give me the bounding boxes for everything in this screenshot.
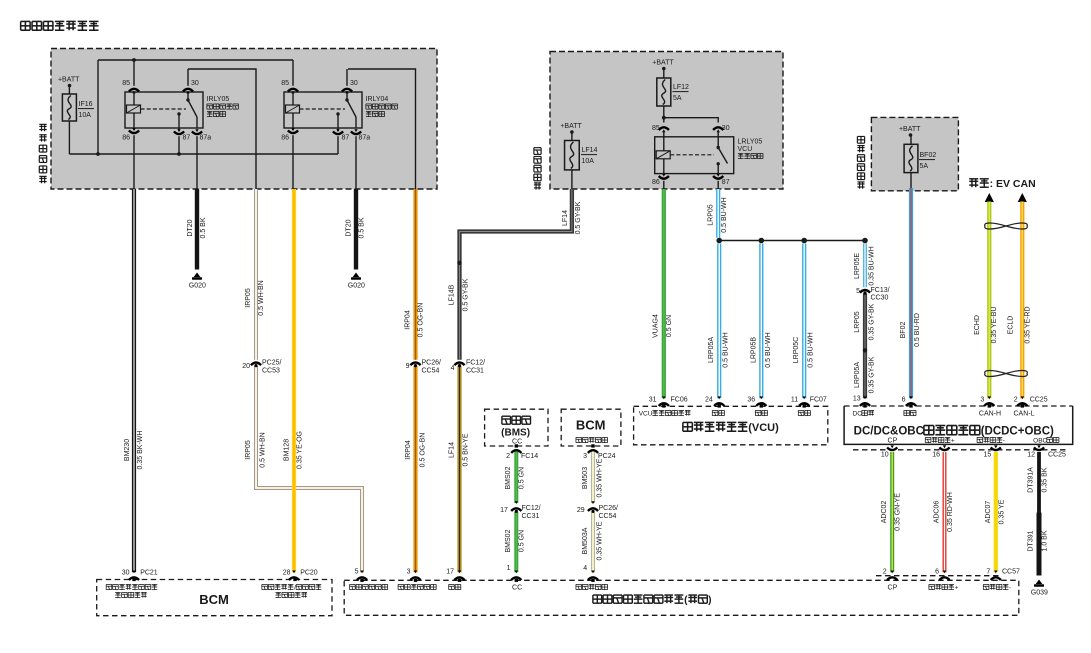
svg-text:BM503A: BM503A: [582, 527, 589, 554]
svg-text:0.5 GY-BK: 0.5 GY-BK: [575, 201, 582, 234]
svg-text:CC25: CC25: [1030, 397, 1048, 404]
svg-text:BCM: BCM: [199, 592, 229, 607]
svg-text:0.5 BN-YE: 0.5 BN-YE: [463, 433, 470, 466]
svg-text:13: 13: [853, 396, 861, 403]
svg-text:VCU: VCU: [639, 411, 653, 418]
svg-text:87: 87: [342, 135, 350, 142]
svg-text:ECLD: ECLD: [1008, 316, 1015, 335]
svg-text:+: +: [955, 585, 959, 592]
svg-text:16: 16: [932, 452, 940, 459]
svg-text:IRP04: IRP04: [405, 310, 412, 330]
svg-text:DT20: DT20: [346, 219, 353, 236]
svg-text:10: 10: [881, 452, 889, 459]
svg-text:LRP05A: LRP05A: [854, 362, 861, 388]
svg-text:+BATT: +BATT: [899, 126, 921, 133]
svg-text:DC: DC: [853, 411, 863, 418]
svg-text:85: 85: [652, 125, 660, 132]
svg-text:0.5 BU-WH: 0.5 BU-WH: [808, 332, 815, 367]
svg-text:CAN-H: CAN-H: [979, 411, 1001, 418]
svg-text:PC20: PC20: [300, 570, 318, 577]
svg-text:BMS02: BMS02: [505, 466, 512, 489]
svg-text:(: (: [684, 595, 688, 606]
svg-text:VUAG4: VUAG4: [653, 314, 660, 338]
svg-text:FC12/: FC12/: [466, 360, 485, 367]
svg-text:31: 31: [649, 397, 657, 404]
svg-text:0.35 BK-WH: 0.35 BK-WH: [137, 431, 144, 470]
svg-text:29: 29: [577, 507, 585, 514]
svg-text:24: 24: [705, 397, 713, 404]
svg-text:PC21: PC21: [140, 570, 158, 577]
svg-text:+BATT: +BATT: [652, 60, 674, 67]
svg-text:BF02: BF02: [920, 152, 937, 159]
svg-text:ADC07: ADC07: [985, 501, 992, 524]
svg-text:(BMS): (BMS): [501, 428, 530, 439]
svg-text:0.5 GN: 0.5 GN: [519, 530, 526, 552]
svg-text:0.35 WH-YE: 0.35 WH-YE: [597, 458, 604, 497]
svg-text:/: /: [294, 585, 296, 592]
svg-text:5A: 5A: [920, 163, 929, 170]
svg-text:20: 20: [242, 363, 250, 370]
svg-text:IRP05: IRP05: [245, 288, 252, 308]
svg-text:-: -: [1009, 585, 1011, 592]
svg-text:1.0 BK: 1.0 BK: [1042, 530, 1049, 551]
svg-text:ADC02: ADC02: [881, 501, 888, 524]
svg-text:PC24: PC24: [598, 453, 616, 460]
svg-text:36: 36: [747, 397, 755, 404]
svg-text:CC54: CC54: [599, 513, 617, 520]
svg-text:28: 28: [283, 570, 291, 577]
svg-text:CC53: CC53: [262, 368, 280, 375]
svg-text:5A: 5A: [673, 95, 682, 102]
svg-text:LRP05: LRP05: [854, 311, 861, 333]
svg-text:6: 6: [902, 397, 906, 404]
svg-text:17: 17: [446, 569, 454, 576]
svg-text:LF14: LF14: [449, 442, 456, 458]
svg-text:0.5 GN: 0.5 GN: [519, 467, 526, 489]
svg-text:1: 1: [507, 565, 511, 572]
svg-text:G020: G020: [189, 283, 206, 290]
svg-text:FC07: FC07: [810, 397, 827, 404]
svg-text:0.35 YE: 0.35 YE: [999, 499, 1006, 524]
svg-text:30: 30: [122, 570, 130, 577]
svg-text:2: 2: [883, 569, 887, 576]
svg-text:87: 87: [722, 179, 730, 186]
svg-text:-: -: [1003, 438, 1005, 445]
svg-text:6: 6: [935, 569, 939, 576]
svg-text:(VCU): (VCU): [748, 422, 779, 434]
svg-text:86: 86: [652, 179, 660, 186]
svg-text:0.35 YE-OG: 0.35 YE-OG: [297, 431, 304, 469]
svg-text:17: 17: [500, 507, 508, 514]
svg-text:0.5 WH-BN: 0.5 WH-BN: [258, 280, 265, 315]
svg-text:LRP05C: LRP05C: [793, 337, 800, 363]
svg-text:0.5 GY-BK: 0.5 GY-BK: [463, 278, 470, 311]
svg-text:3: 3: [407, 569, 411, 576]
svg-text:7: 7: [986, 569, 990, 576]
svg-text:0.5 BU-WH: 0.5 BU-WH: [721, 197, 728, 232]
svg-text:LF14B: LF14B: [449, 284, 456, 305]
svg-text:0.5 OG-BN: 0.5 OG-BN: [418, 303, 425, 338]
svg-text:0.5 BU-WH: 0.5 BU-WH: [765, 332, 772, 367]
svg-text:+BATT: +BATT: [560, 123, 582, 130]
svg-text:0.5 GN: 0.5 GN: [666, 315, 673, 337]
svg-text:CC: CC: [512, 585, 522, 592]
svg-text:LRP05B: LRP05B: [750, 337, 757, 363]
svg-text:87a: 87a: [359, 135, 371, 142]
svg-text:3: 3: [980, 397, 984, 404]
svg-text:CC25: CC25: [1048, 452, 1066, 459]
svg-text:BF02: BF02: [900, 322, 907, 339]
svg-text:CC31: CC31: [466, 368, 484, 375]
svg-text:0.35 GY-BK: 0.35 GY-BK: [869, 356, 876, 393]
svg-text:10A: 10A: [582, 158, 595, 165]
svg-text:0.5 BK: 0.5 BK: [200, 217, 207, 238]
svg-text:ADC06: ADC06: [934, 501, 941, 524]
svg-text:0.5 BK: 0.5 BK: [359, 217, 366, 238]
svg-text:9: 9: [406, 363, 410, 370]
svg-text:LF14: LF14: [582, 147, 598, 154]
svg-text:86: 86: [122, 135, 130, 142]
svg-text:0.35 GN-YE: 0.35 GN-YE: [895, 493, 902, 531]
svg-text:G020: G020: [348, 283, 365, 290]
svg-text:IRLY04: IRLY04: [366, 96, 389, 103]
svg-text:0.35 BU-WH: 0.35 BU-WH: [869, 246, 876, 285]
svg-text:CP: CP: [888, 585, 898, 592]
svg-text:(DCDC+OBC): (DCDC+OBC): [981, 426, 1054, 438]
svg-text:2: 2: [1014, 397, 1018, 404]
svg-text:PC26/: PC26/: [599, 505, 619, 512]
svg-text:OBC: OBC: [1033, 438, 1047, 445]
svg-text:LRLY05: LRLY05: [738, 139, 763, 146]
svg-text:G039: G039: [1031, 590, 1048, 597]
svg-text:LRP05E: LRP05E: [854, 253, 861, 279]
svg-text:FC06: FC06: [671, 397, 688, 404]
svg-text:LRP05A: LRP05A: [708, 337, 715, 363]
svg-text:DT20: DT20: [187, 219, 194, 236]
svg-text:+BATT: +BATT: [58, 77, 80, 84]
svg-text:CC57: CC57: [1002, 569, 1020, 576]
svg-text:BM503: BM503: [582, 467, 589, 489]
svg-text:IF16: IF16: [79, 101, 93, 108]
svg-text:CC31: CC31: [522, 513, 540, 520]
svg-text:0.35 GY-BK: 0.35 GY-BK: [869, 303, 876, 340]
svg-text:+: +: [951, 438, 955, 445]
svg-text:FC12/: FC12/: [522, 505, 541, 512]
svg-text:87a: 87a: [200, 135, 212, 142]
svg-text:11: 11: [791, 397, 798, 404]
svg-text:BMS02: BMS02: [505, 529, 512, 552]
svg-text:0.5 OG-BN: 0.5 OG-BN: [420, 433, 427, 468]
svg-text:PC25/: PC25/: [262, 360, 282, 367]
svg-text:0.5 WH-BN: 0.5 WH-BN: [260, 432, 267, 467]
svg-text:IRP05: IRP05: [245, 440, 252, 460]
svg-text:4: 4: [451, 365, 455, 372]
svg-text:IRLY05: IRLY05: [207, 96, 230, 103]
svg-text:30: 30: [191, 80, 199, 87]
svg-text:30: 30: [722, 125, 730, 132]
svg-text:DC/DC&OBC: DC/DC&OBC: [854, 426, 924, 438]
svg-text:30: 30: [350, 80, 358, 87]
svg-text:PC26/: PC26/: [422, 360, 442, 367]
svg-text:ECHD: ECHD: [974, 315, 981, 335]
svg-text:LRP05: LRP05: [707, 204, 714, 226]
svg-text:): ): [708, 595, 711, 606]
svg-text:0.5 BU-RD: 0.5 BU-RD: [914, 313, 921, 347]
svg-text:DT391: DT391: [1028, 530, 1035, 551]
svg-text:CP: CP: [888, 438, 898, 445]
svg-text:0.35 BK: 0.35 BK: [1042, 467, 1049, 492]
svg-text:10A: 10A: [79, 112, 92, 119]
svg-text:0.35 YE-RD: 0.35 YE-RD: [1025, 306, 1032, 343]
svg-text:FC13/: FC13/: [871, 287, 890, 294]
svg-text:FC14: FC14: [521, 453, 538, 460]
svg-text:BM230: BM230: [124, 439, 131, 461]
svg-text:CC30: CC30: [871, 295, 889, 302]
svg-text:86: 86: [281, 135, 289, 142]
svg-text:: EV CAN: : EV CAN: [990, 178, 1036, 190]
svg-text:85: 85: [281, 80, 289, 87]
svg-text:4: 4: [583, 565, 587, 572]
svg-text:3: 3: [583, 453, 587, 460]
svg-text:0.35 RD-WH: 0.35 RD-WH: [947, 492, 954, 532]
svg-text:CC54: CC54: [422, 368, 440, 375]
svg-text:85: 85: [122, 80, 130, 87]
svg-text:BCM: BCM: [576, 418, 606, 433]
svg-text:IRP04: IRP04: [405, 440, 412, 460]
svg-text:LF12: LF12: [673, 84, 689, 91]
svg-text:2: 2: [506, 453, 510, 460]
svg-text:0.35 WH-YE: 0.35 WH-YE: [597, 521, 604, 560]
svg-text:12: 12: [1027, 452, 1035, 459]
svg-text:0.35 YE-BU: 0.35 YE-BU: [991, 307, 998, 344]
svg-text:0.5 BU-WH: 0.5 BU-WH: [723, 332, 730, 367]
svg-text:15: 15: [984, 452, 992, 459]
svg-text:DT391A: DT391A: [1028, 467, 1035, 493]
svg-text:LF14: LF14: [562, 210, 569, 226]
svg-text:87: 87: [183, 135, 191, 142]
svg-text:VCU: VCU: [738, 146, 753, 153]
svg-text:BM128: BM128: [284, 439, 291, 461]
svg-text:5: 5: [355, 569, 359, 576]
svg-text:CAN-L: CAN-L: [1014, 411, 1035, 418]
